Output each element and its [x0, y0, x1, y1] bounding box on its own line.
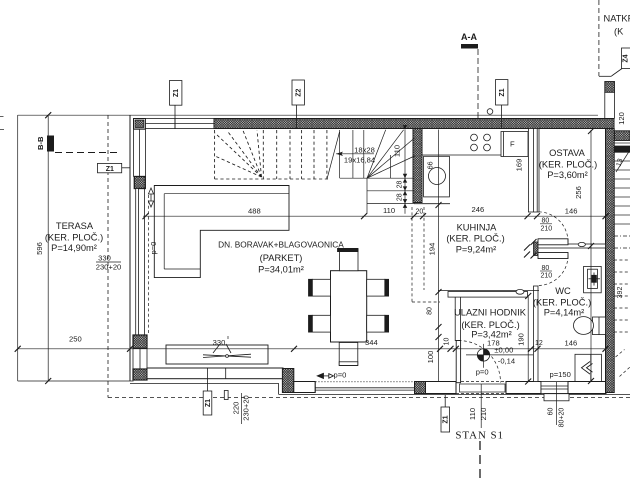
svg-text:230+20: 230+20 [96, 263, 122, 272]
wc west wall below door [534, 286, 539, 382]
svg-text:60: 60 [548, 408, 555, 416]
dining table [331, 271, 367, 342]
svg-text:120: 120 [617, 112, 626, 125]
svg-text:488: 488 [248, 207, 261, 216]
outer sill line [279, 393, 630, 395]
ostava door swing arc [538, 212, 568, 242]
svg-text:28: 28 [397, 193, 404, 201]
svg-text:210: 210 [541, 226, 553, 233]
svg-text:Z2: Z2 [296, 89, 303, 97]
wc washbasin [584, 266, 602, 292]
svg-text:P=34,01m²: P=34,01m² [258, 265, 304, 275]
svg-text:NATKR: NATKR [604, 14, 630, 24]
right exterior wall x605.5-614 [606, 129, 615, 393]
svg-text:18x28: 18x28 [354, 145, 375, 154]
svg-text:146: 146 [565, 339, 578, 348]
wall piece left of entry door [426, 382, 457, 394]
svg-text:WC: WC [555, 286, 571, 296]
wall corner block top-left [134, 119, 146, 130]
wall column [415, 382, 426, 394]
kitchen counters [414, 155, 501, 204]
door stop symbol on partition [578, 242, 585, 246]
svg-text:DN. BORAVAK+BLAGOVAONICA: DN. BORAVAK+BLAGOVAONICA [218, 240, 344, 250]
kitchen east wall / shaft x527.5-538 [528, 129, 539, 213]
interior stair [215, 130, 415, 214]
svg-text:210: 210 [479, 408, 488, 421]
window upper-left wall [134, 129, 146, 176]
svg-text:392: 392 [617, 287, 624, 299]
svg-text:p=0: p=0 [334, 371, 347, 380]
chair north [338, 248, 359, 270]
svg-text:p=0: p=0 [476, 368, 489, 377]
svg-text:F: F [510, 140, 515, 149]
chair south [339, 343, 358, 366]
entry threshold [456, 382, 506, 394]
ostava door leaf [538, 239, 568, 245]
svg-text:100: 100 [426, 351, 435, 364]
wc door leaf [538, 253, 568, 259]
slide arrows left wall [148, 188, 153, 207]
svg-text:TERASA: TERASA [56, 221, 94, 231]
stair winder (upper flight, dashed) [215, 130, 330, 179]
svg-text:ULAZNI HODNIK: ULAZNI HODNIK [454, 308, 527, 318]
gallery edge above (dashed) [412, 207, 440, 302]
svg-text:(KER. PLOČ.): (KER. PLOČ.) [446, 234, 504, 244]
svg-text:66: 66 [428, 161, 435, 169]
svg-text:±0,00: ±0,00 [494, 345, 513, 354]
hodnik west wall x444.5-449 [455, 296, 460, 341]
kitchen west wall (stair side) x413-422 [413, 129, 422, 203]
svg-text:Z1: Z1 [173, 89, 180, 97]
bottom wall living room y369-380 [130, 368, 294, 400]
entry door swing arc [459, 341, 501, 383]
svg-text:(KER. PLOČ.): (KER. PLOČ.) [45, 233, 103, 243]
wall stub between ostava and wc doors [534, 242, 539, 256]
svg-text:P=3,42m²: P=3,42m² [471, 330, 512, 340]
svg-text:P=4,14m²: P=4,14m² [544, 308, 585, 318]
sofa [154, 186, 289, 278]
fridge F [501, 132, 528, 157]
dining south window [315, 382, 414, 393]
svg-text:p=150: p=150 [550, 370, 571, 379]
svg-text:(KER. PLOČ.): (KER. PLOČ.) [533, 298, 591, 308]
wall pier [134, 177, 145, 189]
chairs west [309, 279, 331, 332]
wall piece right of wc window [568, 382, 606, 394]
svg-text:P=14,90m²: P=14,90m² [51, 243, 97, 253]
bottom main dimension line y349 [15, 346, 609, 352]
svg-text:(K: (K [614, 27, 624, 37]
walking line diagonal [327, 132, 340, 179]
entry door dim 110/210 [480, 384, 482, 428]
svg-text:596: 596 [35, 242, 44, 255]
terrace dim line x45 [45, 112, 51, 384]
svg-text:-0,14: -0,14 [498, 356, 515, 365]
entry door leaf [456, 341, 460, 383]
svg-text:13: 13 [616, 158, 625, 167]
svg-text:169: 169 [515, 159, 524, 172]
wall outer face line [129, 115, 131, 381]
svg-text:80+20: 80+20 [559, 408, 566, 428]
wc toilet [574, 317, 606, 335]
tv set [203, 344, 251, 358]
bottom wall entrance side y381.5-393.5 [279, 382, 630, 401]
Z1 marker boxes [98, 48, 630, 432]
svg-text:146: 146 [565, 206, 578, 215]
svg-text:STAN S1: STAN S1 [455, 430, 504, 442]
dashed treads [262, 130, 264, 179]
svg-text:Z4: Z4 [623, 54, 630, 62]
solid treads lower flight [339, 130, 341, 178]
svg-text:20: 20 [416, 208, 424, 215]
left exterior wall [130, 115, 149, 381]
counter along top wall [422, 154, 501, 156]
exterior stair right [614, 131, 630, 377]
hatched top wall run [214, 119, 614, 129]
svg-text:344: 344 [365, 338, 378, 347]
main interior dimension line y214 [143, 213, 609, 219]
svg-text:194: 194 [428, 243, 437, 256]
svg-text:OSTAVA: OSTAVA [549, 148, 585, 158]
stove burners [471, 134, 491, 151]
ostava/wc partition wall y244-248 [538, 244, 606, 248]
ostava vertical dim line [588, 128, 594, 384]
tv stand [166, 345, 268, 364]
vent circle on wall [487, 109, 493, 115]
svg-text:B-B: B-B [36, 136, 45, 150]
svg-text:Z1: Z1 [443, 415, 450, 423]
svg-text:256: 256 [574, 186, 583, 199]
svg-text:p=0: p=0 [149, 242, 158, 255]
hodnik height dim line [525, 293, 531, 385]
dashed canopy outline left/bottom [108, 115, 630, 398]
svg-text:80: 80 [427, 307, 434, 315]
sink [429, 168, 446, 185]
wall pier lower [133, 335, 147, 348]
svg-text:(PARKET): (PARKET) [260, 253, 303, 263]
top exterior wall y118.5-128.5 [134, 109, 615, 129]
svg-text:230+20: 230+20 [242, 395, 251, 421]
stair dimension column x405 [403, 125, 407, 214]
svg-text:A-A: A-A [461, 32, 477, 42]
wc window 60 [541, 382, 569, 401]
kitchen-hodnik opening casing [438, 289, 539, 297]
corner column SE of living room [282, 369, 293, 393]
svg-text:110: 110 [383, 206, 395, 215]
svg-text:Z1: Z1 [499, 88, 506, 96]
side counter with sink [424, 156, 450, 197]
svg-text:P=9,24m²: P=9,24m² [456, 245, 497, 255]
svg-text:P=3,60m²: P=3,60m² [547, 170, 588, 180]
sliding terrace door 330 [136, 189, 145, 336]
dashed boundary top-right (natkrivena terasa) [598, 0, 600, 76]
svg-text:12: 12 [535, 340, 543, 347]
svg-text:250: 250 [69, 335, 82, 344]
svg-text:28: 28 [397, 181, 404, 189]
corner pier bottom-left [133, 369, 147, 380]
chairs east [367, 279, 389, 332]
svg-text:210: 210 [541, 273, 553, 280]
svg-text:19x16,84: 19x16,84 [344, 156, 375, 165]
svg-text:KUHINJA: KUHINJA [457, 223, 498, 233]
living room south window 220 [147, 368, 283, 379]
svg-text:110: 110 [468, 408, 477, 420]
elevation marker [466, 344, 533, 368]
wc door swing arc [538, 256, 568, 286]
svg-text:Z1: Z1 [205, 399, 212, 407]
outline: roof overhang thin lines [0, 115, 598, 381]
bottom treads [340, 177, 415, 179]
wall piece right of entry door [506, 382, 541, 394]
window in top wall [146, 119, 215, 129]
svg-text:330: 330 [213, 338, 226, 347]
svg-text:220: 220 [232, 402, 241, 415]
svg-text:Z1: Z1 [106, 166, 114, 173]
svg-text:10: 10 [444, 338, 451, 346]
kitchen vertical dim line x438 [436, 130, 442, 382]
svg-text:246: 246 [472, 205, 485, 214]
wc window dim 60/80+20 [556, 382, 558, 425]
svg-text:110: 110 [393, 145, 402, 157]
svg-text:(KER. PLOČ.): (KER. PLOČ.) [539, 160, 597, 170]
lower winder fan [367, 130, 386, 178]
living window dim 220/230+20 [241, 393, 243, 424]
window lower-left wall [133, 348, 147, 369]
downpipe box [224, 391, 228, 400]
washing machine [575, 354, 601, 381]
svg-text:330: 330 [98, 254, 111, 263]
outer sill line living room [130, 382, 279, 384]
svg-text:(KER. PLOČ.): (KER. PLOČ.) [461, 320, 519, 330]
svg-text:190: 190 [517, 333, 526, 346]
wall piece east of column [294, 382, 315, 393]
